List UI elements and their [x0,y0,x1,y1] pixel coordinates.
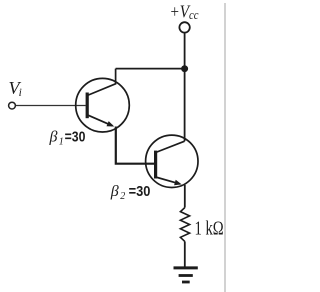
transistor Q2 [146,135,198,187]
svg-text:=30: =30 [129,184,151,200]
svg-text:+V: +V [170,1,192,21]
+Vcc terminal [179,22,189,32]
svg-text:1 kΩ: 1 kΩ [195,218,224,240]
wire Vcc rail [184,33,186,141]
wire Q1 collector to Vcc junction [116,68,185,70]
junction dot [181,65,188,72]
ground [174,268,198,282]
svg-text:2: 2 [120,191,125,202]
input terminal Vi [9,102,16,109]
wire resistor to ground [184,241,186,267]
wire input to Q1 base [16,105,86,107]
resistor R 1k [180,208,189,242]
+Vcc label [170,1,199,22]
wire Q2 emitter to resistor [184,185,186,208]
transistor Q1 [76,69,130,132]
label beta2=30 [110,183,151,202]
svg-text:1: 1 [59,136,64,147]
svg-text:β: β [49,128,58,145]
wire Q1 emitter to Q2 base [116,127,154,164]
svg-text:cc: cc [189,8,199,22]
node Vi label [9,78,22,99]
svg-text:=30: =30 [65,129,86,145]
svg-text:i: i [19,87,22,99]
svg-text:β: β [110,183,119,200]
label beta1=30 [49,128,86,147]
